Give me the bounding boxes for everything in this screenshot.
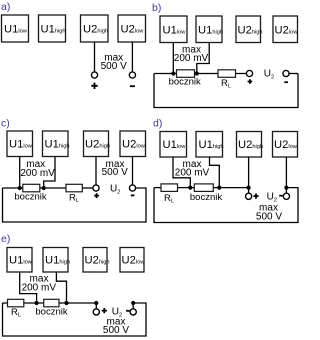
wire U2low down to - terminal (c) [132,157,134,185]
box U2low (d) [273,132,298,158]
junction dot above - terminal (d) [284,186,288,190]
label - (e) [126,310,129,312]
box U1high (a) [39,15,66,42]
wire U1high elbow to shunt right (b) [197,43,209,74]
resistor bocznik (e) [44,299,59,307]
wire return loop (d) [154,188,298,223]
label + (d) [253,194,258,199]
wire U2high to + terminal (a) [94,42,96,72]
box U1low (e) [7,248,33,273]
terminal - (e) [130,309,136,315]
terminal + (e) [93,309,99,315]
label + (b) [248,79,253,84]
wire U1low elbow to shunt left (d) [173,157,190,188]
stub to + terminal (e) [95,303,97,309]
label - (d) [279,195,282,197]
wire RL to + terminal (c) [82,187,93,189]
resistor RL (e) [8,299,24,307]
svg-text:500 V: 500 V [256,211,282,222]
stub from - terminal up (d) [285,188,287,194]
svg-text:c): c) [1,118,10,130]
box U2high (a) [81,15,109,42]
box U2low (a) [118,15,146,42]
junction dot right of shunt (d) [217,186,221,190]
resistor RL (c) [66,184,82,192]
stub to + terminal (d) [248,188,250,194]
svg-text:bocznik: bocznik [35,307,67,318]
label + (a) [91,83,97,89]
svg-text:b): b) [152,2,161,14]
box U1high (b) [196,16,223,43]
wire rail left segment (b) [154,73,177,75]
svg-text:200 mV: 200 mV [20,168,55,179]
wire return loop (b) [154,74,298,108]
wire return loop (e) [3,303,147,336]
wire RL to bocznik (e) [24,302,44,304]
wire U2low to - terminal (a) [131,42,133,72]
wire rail to + junction (d) [213,187,248,189]
terminal - (d) [283,193,289,199]
stub from - terminal up (e) [132,303,134,309]
svg-text:500 V: 500 V [101,61,127,72]
junction dot left of shunt (d) [188,186,192,190]
svg-text:200 mV: 200 mV [175,167,210,178]
junction dot above + terminal (d) [247,186,251,190]
wire RL to bocznik (d) [178,187,195,189]
wire U1high elbow to shunt right (e) [56,272,66,303]
terminal + (c) [93,185,99,191]
box U2high (e) [83,248,110,273]
wire U1low down to shunt left (b) [172,43,174,74]
box U2low (b) [273,16,298,43]
resistor RL (d) [161,184,178,192]
wire U2high down to + terminal (c) [95,157,97,185]
resistor bocznik (b) [177,70,195,78]
junction dot right of shunt (b) [195,71,199,75]
junction dot right of bocznik (e) [64,301,68,305]
svg-text:500 V: 500 V [102,167,128,178]
junction dot above - terminal (e) [131,301,135,305]
label + (e) [102,308,107,313]
resistor bocznik (c) [23,184,40,192]
wire - terminal to loop (b) [289,73,298,75]
terminal + (d) [246,193,252,199]
junction dot above + terminal (e) [94,301,98,305]
junction dot left of shunt (c) [18,186,22,190]
box U1low (a) [2,15,29,42]
wire U1high elbow to shunt right (d) [210,157,220,188]
box U1low (c) [7,131,33,157]
junction dot left of shunt (b) [171,71,175,75]
svg-text:bocznik: bocznik [169,77,201,88]
box U1high (e) [43,248,70,273]
wire U1high elbow to shunt right (c) [44,157,55,189]
box U2high (d) [237,132,264,158]
wire rail left segment (e) [3,302,8,304]
wire rail left segment (c) [3,187,23,189]
box U1low (b) [160,16,187,43]
svg-text:200 mV: 200 mV [22,282,57,293]
box U2low (c) [120,131,146,157]
box U1high (d) [196,132,224,158]
box U2high (c) [84,131,111,157]
svg-text:bocznik: bocznik [14,192,46,203]
svg-text:200 mV: 200 mV [174,53,209,64]
wire rail mid segment (b) [195,73,219,75]
resistor RL (b) [218,70,236,78]
label + (c) [94,193,99,198]
box U2low (e) [120,248,145,273]
svg-text:d): d) [153,118,162,130]
label - (b) [284,81,288,83]
wire rail to + junction (e) [59,302,96,304]
wire U1low elbow to shunt left (e) [20,272,37,303]
terminal + (a) [91,72,97,78]
label - (a) [130,85,135,87]
wire U2high down to + junction (d) [248,157,250,188]
terminal - (c) [129,185,135,191]
svg-text:500 V: 500 V [103,325,129,336]
label - (c) [131,194,135,196]
terminal - (a) [129,72,135,78]
svg-text:bocznik: bocznik [190,192,222,203]
svg-text:a): a) [1,1,10,13]
junction dot right of shunt (c) [42,186,46,190]
box U1high (c) [43,131,70,157]
wire return loop (c) [3,188,147,222]
wire U2low down to - junction (d) [285,157,287,188]
wire rail left segment (d) [154,187,161,189]
resistor bocznik (d) [194,184,213,192]
wire RL to + terminal (b) [236,73,247,75]
wire rail mid segment (c) [40,187,66,189]
wire U1low down to shunt left (c) [19,157,21,189]
svg-text:e): e) [1,233,10,245]
terminal - (b) [283,70,289,76]
junction dot left of bocznik (e) [35,301,39,305]
box U2high (b) [236,16,263,43]
terminal + (b) [246,70,252,76]
box U1low (d) [160,132,187,158]
